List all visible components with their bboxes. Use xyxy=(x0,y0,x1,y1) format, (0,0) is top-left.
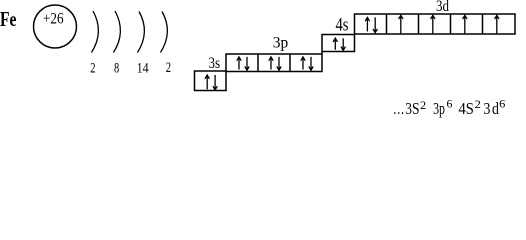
svg-text:3S: 3S xyxy=(405,99,419,118)
label 4s xyxy=(336,16,349,36)
svg-text:3d: 3d xyxy=(436,0,449,15)
shell arc 4 xyxy=(161,12,168,53)
electron configuration text xyxy=(393,96,505,118)
svg-text:…: … xyxy=(393,99,405,118)
svg-text:14: 14 xyxy=(137,61,150,77)
single electron arrow in 3d cell 2 xyxy=(399,15,403,33)
shell count 2 xyxy=(90,61,95,77)
shell count 8 xyxy=(114,61,119,77)
svg-text:4s: 4s xyxy=(336,16,349,36)
svg-text:2: 2 xyxy=(90,61,95,77)
shell arc 3 xyxy=(138,12,145,53)
svg-text:6: 6 xyxy=(447,97,453,111)
svg-text:3: 3 xyxy=(484,99,491,118)
nucleus circle xyxy=(34,5,77,48)
electron pair arrows in 3p cell 3 xyxy=(301,57,313,70)
shell arc 2 xyxy=(114,11,121,53)
svg-text:2: 2 xyxy=(166,60,171,76)
element symbol Fe xyxy=(0,7,17,31)
shell arc 1 xyxy=(92,11,99,53)
svg-text:2: 2 xyxy=(475,97,481,111)
orbital boxes 3p (3 cells) xyxy=(226,54,322,72)
shell count 2 xyxy=(166,60,171,76)
shell count 14 xyxy=(137,61,150,77)
label 3s xyxy=(209,55,221,72)
electron pair arrows in 4s xyxy=(333,38,345,50)
electron pair arrows in 3d cell 1 xyxy=(365,17,377,32)
electron pair arrows in 3p cell 2 xyxy=(269,57,281,70)
svg-text:3s: 3s xyxy=(209,55,221,72)
single electron arrow in 3d cell 4 xyxy=(463,15,467,33)
orbital boxes 3d (5 cells) xyxy=(355,14,516,34)
svg-text:4S: 4S xyxy=(459,99,474,118)
svg-text:6: 6 xyxy=(499,96,505,110)
orbital box 4s xyxy=(322,35,355,55)
nucleus charge +26 xyxy=(43,11,64,28)
svg-text:3p: 3p xyxy=(433,99,445,118)
label 3d xyxy=(436,0,449,15)
single electron arrow in 3d cell 5 xyxy=(495,15,499,33)
electron pair arrows in 3s xyxy=(205,75,217,90)
svg-text:8: 8 xyxy=(114,61,119,77)
orbital box 3s xyxy=(195,71,227,91)
single electron arrow in 3d cell 3 xyxy=(431,15,435,33)
svg-text:+26: +26 xyxy=(43,11,64,28)
label 3p xyxy=(273,35,289,52)
svg-text:Fe: Fe xyxy=(0,7,17,31)
svg-text:3p: 3p xyxy=(273,35,289,52)
svg-text:2: 2 xyxy=(420,98,426,112)
wire: vertical joint between 4s bottom and 3p top at x=322 xyxy=(321,51,323,55)
electron pair arrows in 3p cell 1 xyxy=(237,57,249,70)
